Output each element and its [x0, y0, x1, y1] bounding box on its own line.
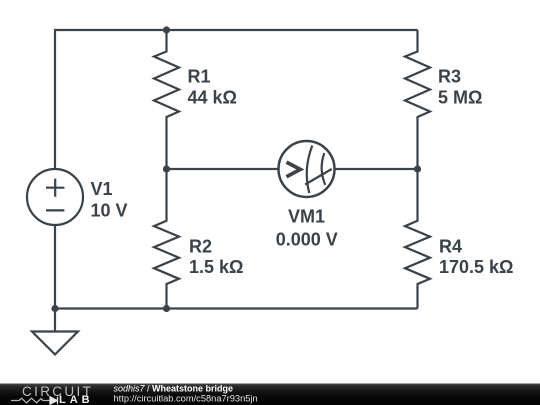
resistor R1	[154, 30, 179, 169]
wire: middle right (voltmeter to node between R3 and R4)	[335, 168, 418, 170]
logo resistor squiggle	[11, 398, 50, 403]
wire: V1 bottom to bottom rail	[54, 225, 56, 309]
resistor R4	[405, 169, 430, 309]
node: junction dot top rail / R1	[163, 26, 170, 33]
svg-text:http://circuitlab.com/c58na7r9: http://circuitlab.com/c58na7r93n5jn	[114, 394, 258, 404]
wire: bottom rail	[55, 307, 418, 309]
node: junction dot R1/R2/voltmeter	[163, 165, 170, 172]
svg-text:1.5 kΩ: 1.5 kΩ	[189, 257, 243, 277]
svg-text:5 MΩ: 5 MΩ	[438, 87, 482, 107]
logo diode	[50, 397, 58, 404]
footer bar	[0, 384, 540, 405]
svg-text:R1: R1	[188, 67, 211, 87]
ground	[32, 309, 78, 355]
node: junction dot R2/bottom rail	[163, 305, 170, 312]
svg-text:sodhis7 / Wheatstone bridge: sodhis7 / Wheatstone bridge	[114, 384, 234, 394]
voltmeter VM1	[279, 141, 335, 197]
svg-text:0.000 V: 0.000 V	[276, 230, 338, 250]
svg-text:44 kΩ: 44 kΩ	[188, 87, 237, 107]
svg-text:R2: R2	[189, 236, 212, 256]
resistor R3	[405, 30, 430, 169]
svg-text:R3: R3	[438, 67, 461, 87]
voltage source V1	[27, 169, 83, 225]
node: junction dot V1/ground/bottom rail	[51, 305, 58, 312]
svg-text:V1: V1	[91, 179, 113, 199]
svg-text:VM1: VM1	[288, 207, 325, 227]
wire: top rail from top-left corner to top-right corner	[55, 30, 418, 169]
svg-text:LAB: LAB	[59, 394, 94, 405]
node: junction dot R3/R4/voltmeter	[414, 165, 421, 172]
resistor R2	[154, 169, 179, 309]
svg-text:10 V: 10 V	[91, 200, 128, 220]
wire: middle left (node between R1 and R2 to voltmeter)	[167, 168, 279, 170]
svg-text:R4: R4	[439, 236, 462, 256]
svg-text:170.5 kΩ: 170.5 kΩ	[439, 257, 514, 277]
